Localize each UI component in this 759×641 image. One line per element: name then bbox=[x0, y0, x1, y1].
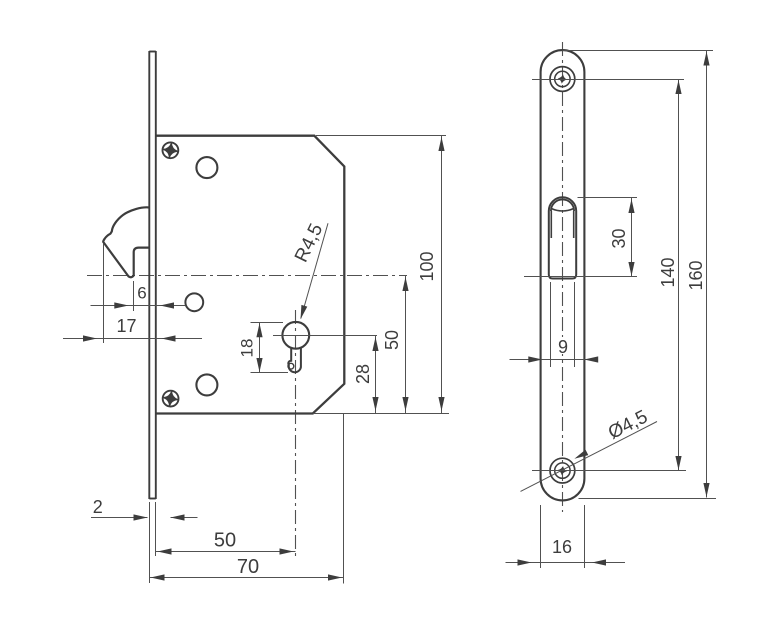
svg-text:Ø4,5: Ø4,5 bbox=[605, 406, 651, 443]
extension body right edge bottom bbox=[343, 414, 345, 584]
extension screw bottom horizontal bbox=[532, 470, 686, 472]
svg-text:160: 160 bbox=[686, 260, 706, 290]
extension line hook left point bbox=[103, 244, 105, 344]
svg-text:28: 28 bbox=[353, 364, 373, 384]
svg-text:100: 100 bbox=[417, 251, 437, 281]
hook bolt bbox=[103, 207, 149, 277]
dimension 2 line right bbox=[171, 517, 198, 519]
bottom screw front bbox=[550, 458, 575, 483]
extension keyhole top bbox=[251, 322, 284, 324]
dimension 160 arrows bbox=[703, 52, 709, 498]
hook visible in slot bbox=[551, 199, 574, 211]
dimension 16 line bbox=[506, 562, 626, 564]
hole middle bbox=[185, 293, 203, 311]
dimension 50 bottom arrows bbox=[158, 548, 294, 554]
svg-text:50: 50 bbox=[382, 330, 402, 350]
extension keyhole bottom bbox=[251, 372, 289, 374]
extension faceplate right edge bottom bbox=[155, 502, 157, 556]
dimension 140 arrows bbox=[675, 80, 681, 470]
extension slab bottom horizontal bbox=[579, 498, 717, 500]
dimension 30 line bbox=[631, 198, 633, 277]
hole bottom bbox=[196, 374, 217, 395]
extension slot right edge down bbox=[574, 282, 576, 367]
dimension 18 arrows bbox=[256, 323, 262, 372]
dimension 30 arrows bbox=[628, 199, 634, 276]
svg-text:50: 50 bbox=[214, 530, 236, 552]
keyhole bbox=[288, 347, 301, 372]
dimension 50 right line bbox=[405, 276, 407, 414]
extension body bottom right bbox=[313, 413, 449, 415]
vertical centerline right view bbox=[562, 42, 564, 512]
extension line hook inner face bbox=[133, 281, 135, 311]
extension slot top bbox=[578, 197, 638, 199]
dimension 9 text halo bbox=[554, 337, 572, 354]
dimension 2 line left bbox=[91, 517, 148, 519]
leader diameter 4,5 line bbox=[521, 422, 658, 492]
svg-text:17: 17 bbox=[116, 316, 136, 336]
dimension 140 line bbox=[678, 80, 680, 471]
dimension 70 arrows bbox=[151, 574, 343, 580]
extension screw top horizontal bbox=[532, 79, 684, 81]
svg-text:2: 2 bbox=[93, 497, 103, 517]
extension slot bottom bbox=[524, 276, 637, 278]
svg-text:18: 18 bbox=[238, 339, 257, 358]
extension slab right edge down bbox=[584, 505, 586, 568]
svg-text:16: 16 bbox=[552, 537, 572, 557]
front faceplate outline bbox=[541, 50, 585, 500]
extension slab left edge down bbox=[540, 505, 542, 568]
top screw front bbox=[550, 67, 575, 92]
dimension 6 line bbox=[91, 305, 186, 307]
faceplate side view (strip) bbox=[149, 51, 156, 499]
dimension 9 arrows bbox=[528, 356, 598, 362]
dimension 50 bottom line bbox=[156, 551, 296, 553]
keyhole vertical centerline bbox=[295, 310, 297, 560]
svg-text:6: 6 bbox=[137, 284, 146, 303]
extension slab top horizontal bbox=[563, 50, 714, 52]
dimension 100 arrows bbox=[438, 137, 444, 411]
dimension 18 line bbox=[259, 323, 261, 373]
leader R4,5 arrow bbox=[301, 305, 308, 319]
dimension 28 line bbox=[375, 336, 377, 414]
leader diameter 4,5 arrow bbox=[574, 450, 588, 459]
svg-text:30: 30 bbox=[609, 228, 629, 248]
screw head bottom bbox=[162, 390, 178, 406]
extension slot left edge down bbox=[550, 282, 552, 367]
dimension 17 line bbox=[63, 338, 202, 340]
svg-text:70: 70 bbox=[237, 556, 259, 578]
extension keyhole centre horizontal bbox=[273, 335, 377, 337]
extension body top right bbox=[316, 135, 446, 137]
dimension 6 arrows bbox=[114, 302, 174, 308]
extension faceplate left edge bottom bbox=[149, 502, 151, 583]
keyhole curl detail bbox=[288, 363, 294, 369]
lock body outline bbox=[157, 136, 345, 414]
leader R4,5 line bbox=[301, 223, 328, 318]
latch slot bbox=[549, 197, 576, 278]
dimension 9 line bbox=[510, 359, 598, 361]
dimension 70 line bbox=[150, 577, 344, 579]
dimension 28 arrows bbox=[372, 337, 378, 411]
screw head top bbox=[162, 142, 178, 158]
svg-text:140: 140 bbox=[658, 257, 678, 287]
dimension 2 arrows bbox=[134, 514, 185, 520]
svg-text:9: 9 bbox=[558, 337, 568, 357]
dimension 16 arrows bbox=[518, 559, 607, 565]
dimension 17 arrows bbox=[83, 335, 176, 341]
centerline horizontal left view bbox=[87, 275, 407, 277]
dimension 100 line bbox=[441, 136, 443, 414]
dimension 50 right arrows bbox=[402, 277, 408, 411]
hole top bbox=[196, 157, 217, 178]
dimension 160 line bbox=[706, 51, 708, 498]
